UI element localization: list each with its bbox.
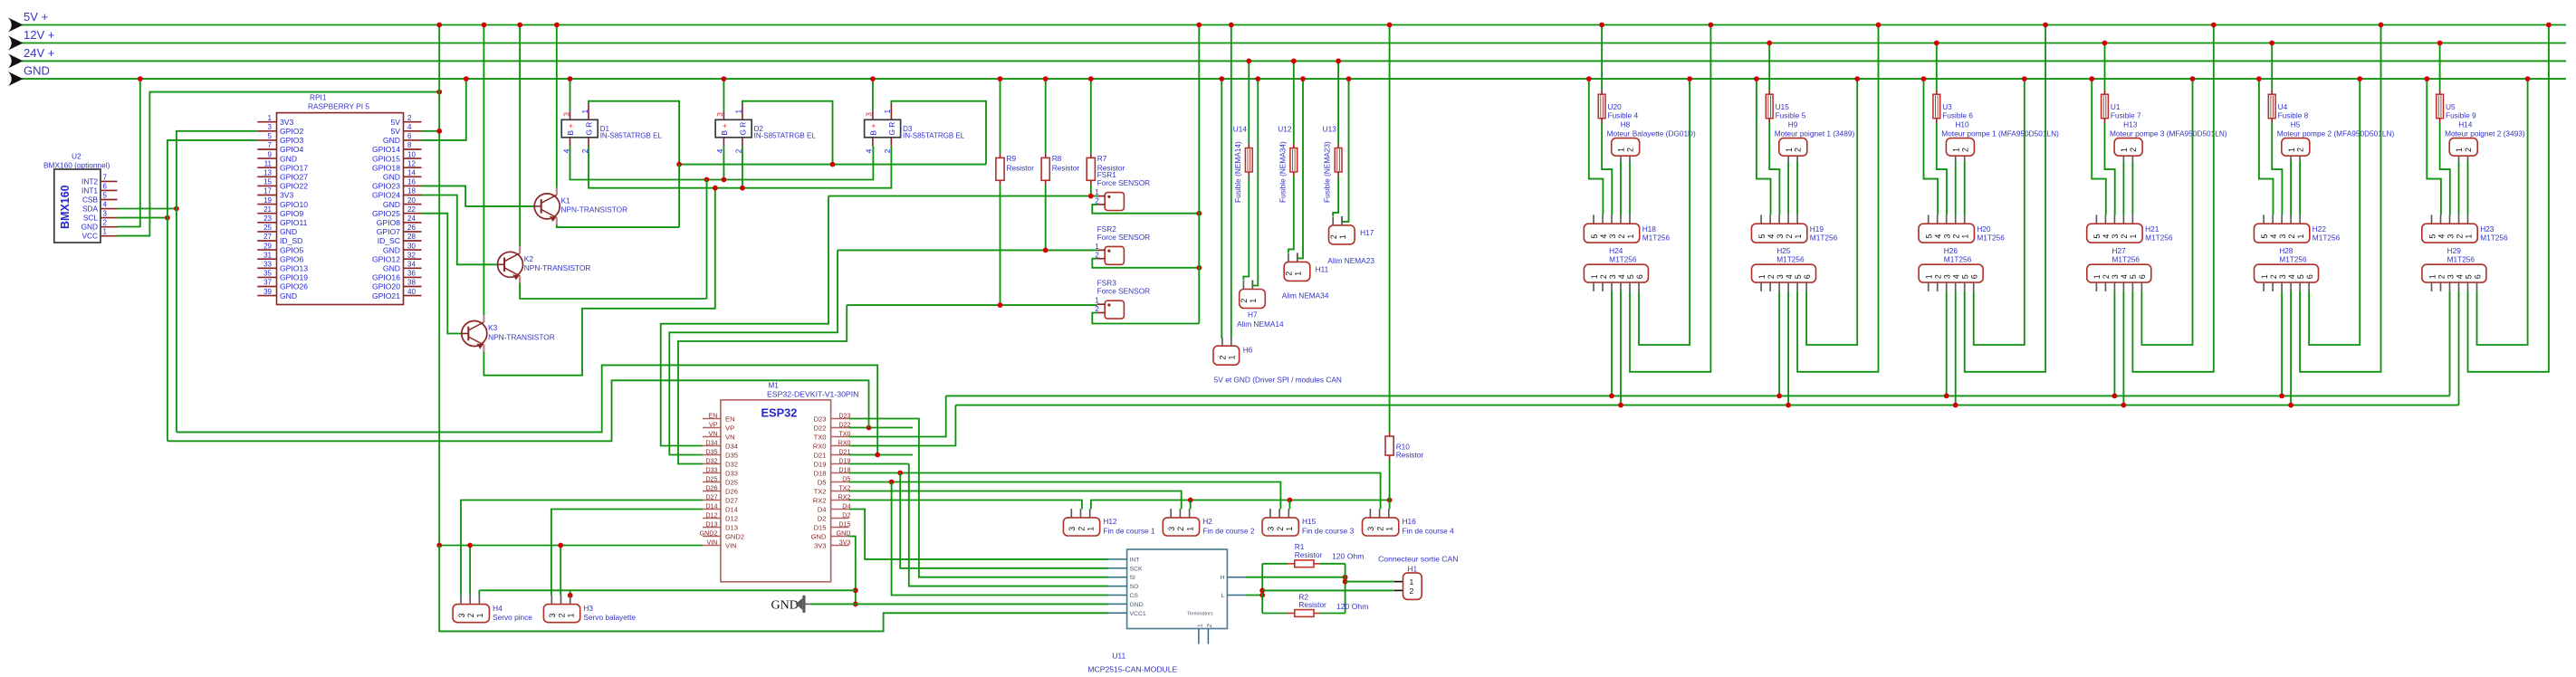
- junction 5V trunk FSR1: [1196, 211, 1202, 216]
- svg-text:U1: U1: [2111, 102, 2121, 111]
- wire rail to fuse U15: [1768, 43, 1770, 91]
- svg-text:17: 17: [263, 187, 272, 195]
- svg-text:GPIO25: GPIO25: [372, 209, 400, 218]
- svg-text:U20: U20: [1608, 102, 1623, 111]
- junction GND trunk H28: [2357, 76, 2362, 81]
- svg-text:1: 1: [1410, 577, 1414, 586]
- svg-text:3: 3: [561, 112, 570, 117]
- svg-text:1: 1: [1294, 272, 1303, 276]
- junction GND rail U4 left: [2256, 76, 2262, 81]
- wire H3 pin2 drop: [560, 546, 561, 596]
- wire fuse to H19 pin3: [1769, 123, 1779, 215]
- junction 5V trunk H27: [2211, 23, 2217, 28]
- connector H17: [1329, 225, 1355, 244]
- wire TX2 to H2 pin2: [849, 491, 1182, 510]
- svg-text:M1T256: M1T256: [2112, 254, 2140, 263]
- svg-text:H19: H19: [1810, 224, 1824, 234]
- svg-text:4: 4: [2269, 234, 2278, 239]
- wire GND rail to R9: [1000, 79, 1001, 153]
- svg-text:1: 1: [883, 110, 892, 114]
- wire H27 pin4 to bus2: [2122, 291, 2124, 405]
- svg-text:Fusible 6: Fusible 6: [1942, 111, 1973, 120]
- svg-text:1: 1: [1590, 274, 1599, 279]
- svg-text:U12: U12: [1278, 125, 1292, 134]
- wire 5V feed to U2.VCC: [118, 92, 440, 236]
- svg-text:29: 29: [263, 242, 272, 250]
- wire GND rail to D2 pin3: [723, 79, 724, 110]
- RPI1 pin 1 stub: [257, 121, 276, 123]
- junction 5V trunk H25: [1876, 23, 1882, 28]
- connector H4 Servo pince: [453, 605, 489, 623]
- junction SDA: [174, 206, 179, 212]
- junction H net: [1343, 575, 1348, 580]
- RPI1 pin 19 stub: [257, 204, 276, 205]
- connector H13: [2114, 138, 2142, 157]
- svg-text:GND: GND: [771, 598, 799, 612]
- svg-text:1: 1: [1925, 274, 1934, 279]
- wire RX2 to H12 pin2: [849, 501, 1082, 510]
- svg-text:RX2: RX2: [838, 492, 851, 501]
- svg-text:GPIO4: GPIO4: [280, 145, 303, 154]
- wire D2 pin1 to red net: [742, 101, 833, 165]
- wire 5V trunk x1324: [1198, 25, 1200, 324]
- junction H3 pin1: [568, 593, 573, 598]
- svg-text:M1T256: M1T256: [1944, 254, 1972, 263]
- svg-text:H24: H24: [1609, 246, 1623, 255]
- junction 5V rail x1359.8: [1229, 23, 1234, 28]
- svg-text:GPIO7: GPIO7: [377, 227, 400, 236]
- svg-text:3: 3: [1776, 234, 1785, 239]
- wire FSR3 ADC wrap to ESP D32: [678, 305, 847, 463]
- fuse U20: [1601, 90, 1603, 94]
- svg-text:BMX160 (optionnel): BMX160 (optionnel): [43, 161, 110, 170]
- svg-text:1: 1: [475, 613, 484, 617]
- wire GND rail to D1 pin3: [570, 79, 571, 110]
- svg-text:M1T256: M1T256: [1810, 234, 1838, 243]
- svg-text:4: 4: [1767, 234, 1776, 239]
- wire GND to H18 pin4: [1589, 79, 1604, 215]
- wire D2 pin4 drop: [723, 147, 724, 180]
- svg-text:1: 1: [2260, 274, 2269, 279]
- power rail GND: [22, 78, 2566, 80]
- svg-text:1: 1: [103, 228, 108, 236]
- M1 pin D18 stub: [831, 472, 849, 474]
- wire FSR2 pin1 net: [838, 249, 1097, 251]
- RPI1 pin 24 stub: [404, 222, 422, 224]
- svg-text:1: 1: [1385, 527, 1394, 531]
- M1 pin D26 stub: [703, 491, 721, 492]
- svg-text:1: 1: [1249, 299, 1258, 303]
- svg-text:M1T256: M1T256: [1977, 234, 2005, 243]
- wire GND to H21 pin4: [2092, 79, 2106, 215]
- power rail 12V +: [22, 43, 2566, 44]
- svg-text:GPIO16: GPIO16: [372, 273, 400, 282]
- svg-text:MCP2515-CAN-MODULE: MCP2515-CAN-MODULE: [1087, 665, 1177, 674]
- svg-text:1: 1: [1087, 527, 1096, 531]
- wire driver bus1: [946, 395, 2450, 396]
- fuse U15: [1768, 90, 1770, 94]
- junction rail U3: [1934, 41, 1939, 46]
- power rail 24V +: [22, 60, 2566, 62]
- wire rail to fuse U1: [2104, 43, 2106, 91]
- svg-text:D19: D19: [838, 456, 850, 464]
- wire H13 pin2 to H21: [2131, 161, 2133, 215]
- svg-text:GPIO5: GPIO5: [280, 245, 303, 254]
- IC M1 ESP32 outline: [721, 400, 831, 582]
- svg-text:VN: VN: [725, 433, 735, 441]
- junction GND rail D3: [870, 76, 876, 81]
- wire GND rail to R8: [1045, 79, 1047, 153]
- junction GND rail U5 left: [2424, 76, 2429, 81]
- svg-text:1: 1: [1617, 148, 1626, 152]
- svg-text:GPIO6: GPIO6: [280, 254, 303, 263]
- svg-text:R7: R7: [1097, 154, 1107, 163]
- svg-text:D26: D26: [725, 487, 738, 495]
- svg-text:EN: EN: [725, 415, 735, 423]
- svg-text:24V +: 24V +: [24, 46, 54, 60]
- svg-text:NPN-TRANSISTOR: NPN-TRANSISTOR: [524, 263, 591, 272]
- wire H10 pin1 to H20: [1955, 161, 1957, 215]
- svg-text:INT2: INT2: [81, 176, 98, 186]
- wire FSR2 ADC wrap to ESP D35: [669, 250, 838, 454]
- svg-text:GPIO19: GPIO19: [280, 273, 308, 282]
- svg-text:B: B: [720, 130, 729, 136]
- wire GND to H20 pin4: [1924, 79, 1939, 215]
- wire red net to K1 emitter: [678, 165, 680, 228]
- wire GND rail to RPI pin6: [422, 79, 466, 140]
- svg-text:5: 5: [268, 132, 273, 140]
- wire rail to fuse U20: [1601, 25, 1603, 91]
- junction bus2 H27: [2121, 403, 2127, 408]
- svg-text:IN-S85TATRGB EL: IN-S85TATRGB EL: [600, 132, 663, 140]
- wire fuse to H20 pin3: [1937, 123, 1947, 215]
- RPI1 pin 6 stub: [404, 139, 422, 141]
- svg-text:TX2: TX2: [838, 483, 850, 491]
- connector H27 M1T256: [2087, 264, 2151, 282]
- power rail 5V +: [22, 24, 2566, 26]
- wire H5 pin2 to H22: [2299, 161, 2301, 215]
- svg-text:GND: GND: [811, 532, 827, 540]
- RPI1 pin 20 stub: [404, 204, 422, 205]
- connector H16 Fin de course 4: [1363, 518, 1399, 536]
- wire D18 to H16 pin2: [849, 473, 1381, 510]
- M1 pin 3V3 stub: [831, 545, 849, 547]
- M1 pin D13 stub: [703, 527, 721, 529]
- svg-text:D25: D25: [725, 478, 738, 486]
- RPI1 pin 28 stub: [404, 240, 422, 242]
- svg-text:D13: D13: [705, 520, 717, 528]
- svg-text:3: 3: [865, 112, 874, 117]
- connector H10: [1946, 138, 1974, 157]
- svg-text:27: 27: [263, 233, 272, 241]
- resistor R9: [1000, 153, 1001, 157]
- svg-text:1: 1: [1195, 624, 1203, 627]
- junction GND rail x154.8: [138, 76, 143, 81]
- RPI1 pin 27 stub: [257, 240, 276, 242]
- svg-text:+: +: [566, 124, 575, 129]
- wire GND to H7 pin1: [1252, 79, 1258, 285]
- wire H4 pin1 drop: [478, 590, 480, 596]
- U11 pin L stub: [1227, 595, 1245, 596]
- svg-text:GPIO11: GPIO11: [280, 218, 308, 227]
- svg-text:D2: D2: [842, 510, 850, 519]
- svg-text:G R: G R: [585, 122, 594, 136]
- junction D5 CS tap: [889, 480, 895, 485]
- wire FSR1 pin1 net: [828, 195, 1097, 197]
- svg-text:INT: INT: [1130, 557, 1140, 563]
- junction 24V rail U12: [1291, 59, 1297, 64]
- svg-text:VCC1: VCC1: [1130, 611, 1146, 617]
- junction H1 pin2 tap: [1259, 588, 1265, 594]
- svg-text:2: 2: [1219, 355, 1228, 359]
- M1 pin RX0 stub: [831, 445, 849, 447]
- svg-text:37: 37: [263, 279, 272, 287]
- svg-text:+: +: [720, 124, 729, 129]
- RPI1 pin 26 stub: [404, 231, 422, 233]
- wire 5V rail to R10: [1389, 25, 1391, 433]
- M1 pin TX2 stub: [831, 491, 849, 492]
- junction bus2 H26: [1953, 403, 1958, 408]
- svg-text:B: B: [566, 130, 575, 136]
- svg-text:GND: GND: [1130, 602, 1144, 608]
- svg-text:6: 6: [2138, 274, 2147, 279]
- wire R9 to FSR: [1000, 185, 1001, 304]
- junction 5V rail K3: [482, 23, 487, 28]
- wire R2 leads: [1262, 613, 1288, 615]
- svg-text:GPIO12: GPIO12: [372, 254, 400, 263]
- svg-text:GPIO2: GPIO2: [280, 127, 303, 136]
- svg-text:20: 20: [407, 196, 416, 205]
- svg-text:28: 28: [407, 233, 416, 241]
- U2 pin 4 stub: [101, 208, 118, 210]
- svg-text:K1: K1: [561, 196, 571, 205]
- wire R8 to FSR: [1045, 185, 1047, 250]
- svg-text:4: 4: [103, 201, 108, 209]
- transistor K1: [534, 194, 560, 219]
- svg-text:2: 2: [1176, 527, 1185, 531]
- wire SDA trunk to ESP D21: [177, 365, 877, 454]
- junction bus1 H28: [2279, 394, 2284, 399]
- junction rail U20: [1599, 23, 1604, 28]
- wire rail to fuse U5: [2439, 43, 2441, 91]
- svg-text:2: 2: [2296, 148, 2305, 152]
- junction green net K3 tap: [713, 186, 718, 191]
- svg-text:3V3: 3V3: [814, 541, 827, 549]
- svg-text:1: 1: [1095, 297, 1099, 305]
- wire 24V to fuse U14: [1248, 61, 1250, 143]
- RPI1 pin 21 stub: [257, 213, 276, 215]
- wire U2.GND to GND rail: [118, 79, 140, 226]
- svg-text:4: 4: [1617, 274, 1626, 279]
- svg-text:5: 5: [1757, 234, 1767, 239]
- wire D5 to H15 pin2: [849, 482, 1281, 510]
- svg-text:Moteur poignet 1 (3489): Moteur poignet 1 (3489): [1775, 129, 1855, 138]
- junction red net D2: [830, 162, 836, 167]
- svg-text:Fin de course 2: Fin de course 2: [1202, 527, 1255, 536]
- svg-text:GND2: GND2: [700, 529, 718, 537]
- svg-text:1: 1: [2428, 274, 2437, 279]
- svg-text:3: 3: [1776, 274, 1785, 279]
- M1 pin D19 stub: [831, 463, 849, 465]
- H1 pin stubs: [1394, 581, 1403, 583]
- svg-text:2: 2: [466, 613, 475, 617]
- wire H29 pin5 to 5V trunk: [2468, 25, 2549, 372]
- RPI1 pin 5 stub: [257, 139, 276, 141]
- U2 pin 5 stub: [101, 199, 118, 201]
- wire H26 pin5 to 5V trunk: [1965, 25, 2045, 372]
- RPI1 pin 15 stub: [257, 185, 276, 186]
- svg-text:Moteur pompe 2 (MFA950D501LN): Moteur pompe 2 (MFA950D501LN): [2277, 129, 2395, 138]
- svg-text:6: 6: [2473, 274, 2482, 279]
- connector H15 Fin de course 3: [1262, 518, 1298, 536]
- junction FSR1/R7: [1088, 194, 1094, 199]
- svg-text:K3: K3: [488, 323, 498, 332]
- svg-text:2: 2: [2269, 274, 2278, 279]
- junction GND flag line: [853, 602, 858, 607]
- wire FSR1 ADC wrap to ESP D34: [661, 196, 828, 446]
- svg-text:TX0: TX0: [838, 429, 850, 437]
- junction 5V rail x1324: [1196, 23, 1202, 28]
- svg-text:H15: H15: [1302, 517, 1317, 526]
- svg-text:39: 39: [263, 288, 272, 296]
- svg-text:M1T256: M1T256: [1609, 254, 1637, 263]
- svg-text:2: 2: [1617, 234, 1626, 239]
- svg-text:BMX160: BMX160: [59, 185, 72, 229]
- svg-text:1: 1: [580, 110, 589, 114]
- wire U12 to H11 pin2: [1288, 176, 1294, 253]
- svg-text:D27: D27: [705, 492, 717, 501]
- svg-text:NPN-TRANSISTOR: NPN-TRANSISTOR: [561, 205, 628, 215]
- svg-text:U5: U5: [2446, 102, 2456, 111]
- svg-text:5V: 5V: [390, 118, 400, 127]
- svg-text:4: 4: [407, 123, 412, 131]
- svg-text:3: 3: [1943, 234, 1952, 239]
- junction GND rail x1389.3: [1255, 76, 1260, 81]
- svg-text:5: 5: [2129, 274, 2138, 279]
- svg-text:CS: CS: [1130, 593, 1139, 599]
- svg-text:H23: H23: [2480, 224, 2495, 234]
- RPI1 pin 40 stub: [404, 295, 422, 297]
- svg-text:2: 2: [1794, 148, 1803, 152]
- U11 pin H stub: [1227, 577, 1245, 578]
- svg-text:GND: GND: [383, 173, 400, 182]
- svg-text:ID_SC: ID_SC: [378, 236, 400, 245]
- svg-text:H21: H21: [2145, 224, 2159, 234]
- svg-text:Fusible 9: Fusible 9: [2446, 111, 2476, 120]
- svg-text:U13: U13: [1323, 125, 1337, 134]
- svg-text:4: 4: [2120, 274, 2129, 279]
- svg-text:Alim NEMA14: Alim NEMA14: [1237, 319, 1284, 329]
- svg-text:2: 2: [1952, 234, 1961, 239]
- wire ESP D21 link: [849, 454, 913, 456]
- wire 5V to K2 collector: [519, 25, 521, 246]
- svg-text:GND: GND: [383, 200, 400, 209]
- svg-text:H10: H10: [1955, 120, 1969, 129]
- wire GND rail to D3 pin3: [872, 79, 874, 110]
- svg-text:GPIO18: GPIO18: [372, 163, 400, 172]
- M1 pin D4 stub: [831, 509, 849, 510]
- RPI1 pin 22 stub: [404, 213, 422, 215]
- svg-text:Resistor: Resistor: [1298, 600, 1326, 609]
- RPI1 pin 23 stub: [257, 222, 276, 224]
- connector H2 Fin de course 2: [1163, 518, 1199, 536]
- junction 5V trunk H29: [2546, 23, 2552, 28]
- junction 5V trunk H28: [2379, 23, 2384, 28]
- svg-text:GND: GND: [81, 223, 98, 232]
- svg-text:Terminators: Terminators: [1187, 612, 1213, 617]
- wire GND to H19 pin4: [1757, 79, 1771, 215]
- wire H4 pin2 drop: [469, 546, 471, 596]
- svg-text:H3: H3: [583, 604, 593, 613]
- svg-text:Fusible 7: Fusible 7: [2111, 111, 2141, 120]
- connector H24 M1T256: [1584, 264, 1648, 282]
- M1 pin D5 stub: [831, 482, 849, 483]
- svg-text:D14: D14: [705, 501, 717, 510]
- wire H28 pin5 to 5V trunk: [2300, 25, 2380, 372]
- svg-text:M1T256: M1T256: [2279, 254, 2307, 263]
- svg-text:1: 1: [734, 110, 743, 114]
- svg-text:Moteur pompe 1 (MFA950D501LN): Moteur pompe 1 (MFA950D501LN): [1941, 129, 2059, 138]
- RPI1 pin 37 stub: [257, 286, 276, 288]
- RPI1 pin 2 stub: [404, 121, 422, 123]
- svg-text:Fusible 4: Fusible 4: [1608, 111, 1639, 120]
- junction 24V rail U14: [1246, 59, 1251, 64]
- junction blue net D2: [722, 177, 727, 183]
- svg-text:6: 6: [1970, 274, 1979, 279]
- junction GND rail R8: [1043, 76, 1049, 81]
- RPI1 pin 18 stub: [404, 195, 422, 196]
- wire K1 emitter: [557, 224, 679, 227]
- svg-text:RX0: RX0: [838, 438, 851, 446]
- junction 24V rail U13: [1336, 59, 1341, 64]
- svg-text:2: 2: [1077, 527, 1086, 531]
- svg-text:IN-S85TATRGB EL: IN-S85TATRGB EL: [903, 132, 965, 140]
- wire GPIO23 to K1 base: [422, 186, 536, 206]
- svg-text:D35: D35: [725, 451, 738, 459]
- junction VIN x485: [436, 543, 442, 548]
- M1 pin D14 stub: [703, 509, 721, 510]
- connector H18 M1T256: [1584, 224, 1639, 243]
- U2 pin 1 stub: [101, 235, 118, 237]
- svg-text:D2: D2: [818, 514, 827, 522]
- wire 24V to fuse U13: [1337, 61, 1339, 143]
- connector H3 Servo balayette: [543, 605, 579, 623]
- svg-text:H4: H4: [493, 604, 503, 613]
- U11 terminator pin 1: [1198, 629, 1200, 644]
- svg-text:U15: U15: [1776, 102, 1790, 111]
- IC RPI1 RASPBERRY_PI_5 outline: [277, 113, 404, 305]
- svg-text:H16: H16: [1403, 517, 1417, 526]
- transistor K3: [462, 321, 487, 347]
- connector H11: [1284, 262, 1310, 281]
- svg-text:D15: D15: [814, 523, 827, 531]
- wire H28 pin4 to bus2: [2290, 291, 2292, 405]
- junction 5V rail x485.2: [436, 23, 442, 28]
- junction 5V trunk FSR2: [1196, 265, 1202, 271]
- svg-text:H20: H20: [1977, 224, 1991, 234]
- wire 5V to H6 pin1: [1231, 25, 1232, 338]
- M1 pin D22 stub: [831, 427, 849, 429]
- junction bus1 H26: [1944, 394, 1949, 399]
- svg-text:6: 6: [103, 182, 108, 190]
- svg-text:Fin de course 4: Fin de course 4: [1403, 527, 1455, 536]
- svg-text:SI: SI: [1130, 575, 1136, 581]
- svg-text:4: 4: [865, 148, 874, 153]
- svg-text:H2: H2: [1202, 517, 1212, 526]
- U11 pin SI stub: [1108, 577, 1126, 578]
- wire D1 pin1 to red net: [589, 101, 679, 165]
- wire H26 pin3 to bus1: [1946, 291, 1948, 396]
